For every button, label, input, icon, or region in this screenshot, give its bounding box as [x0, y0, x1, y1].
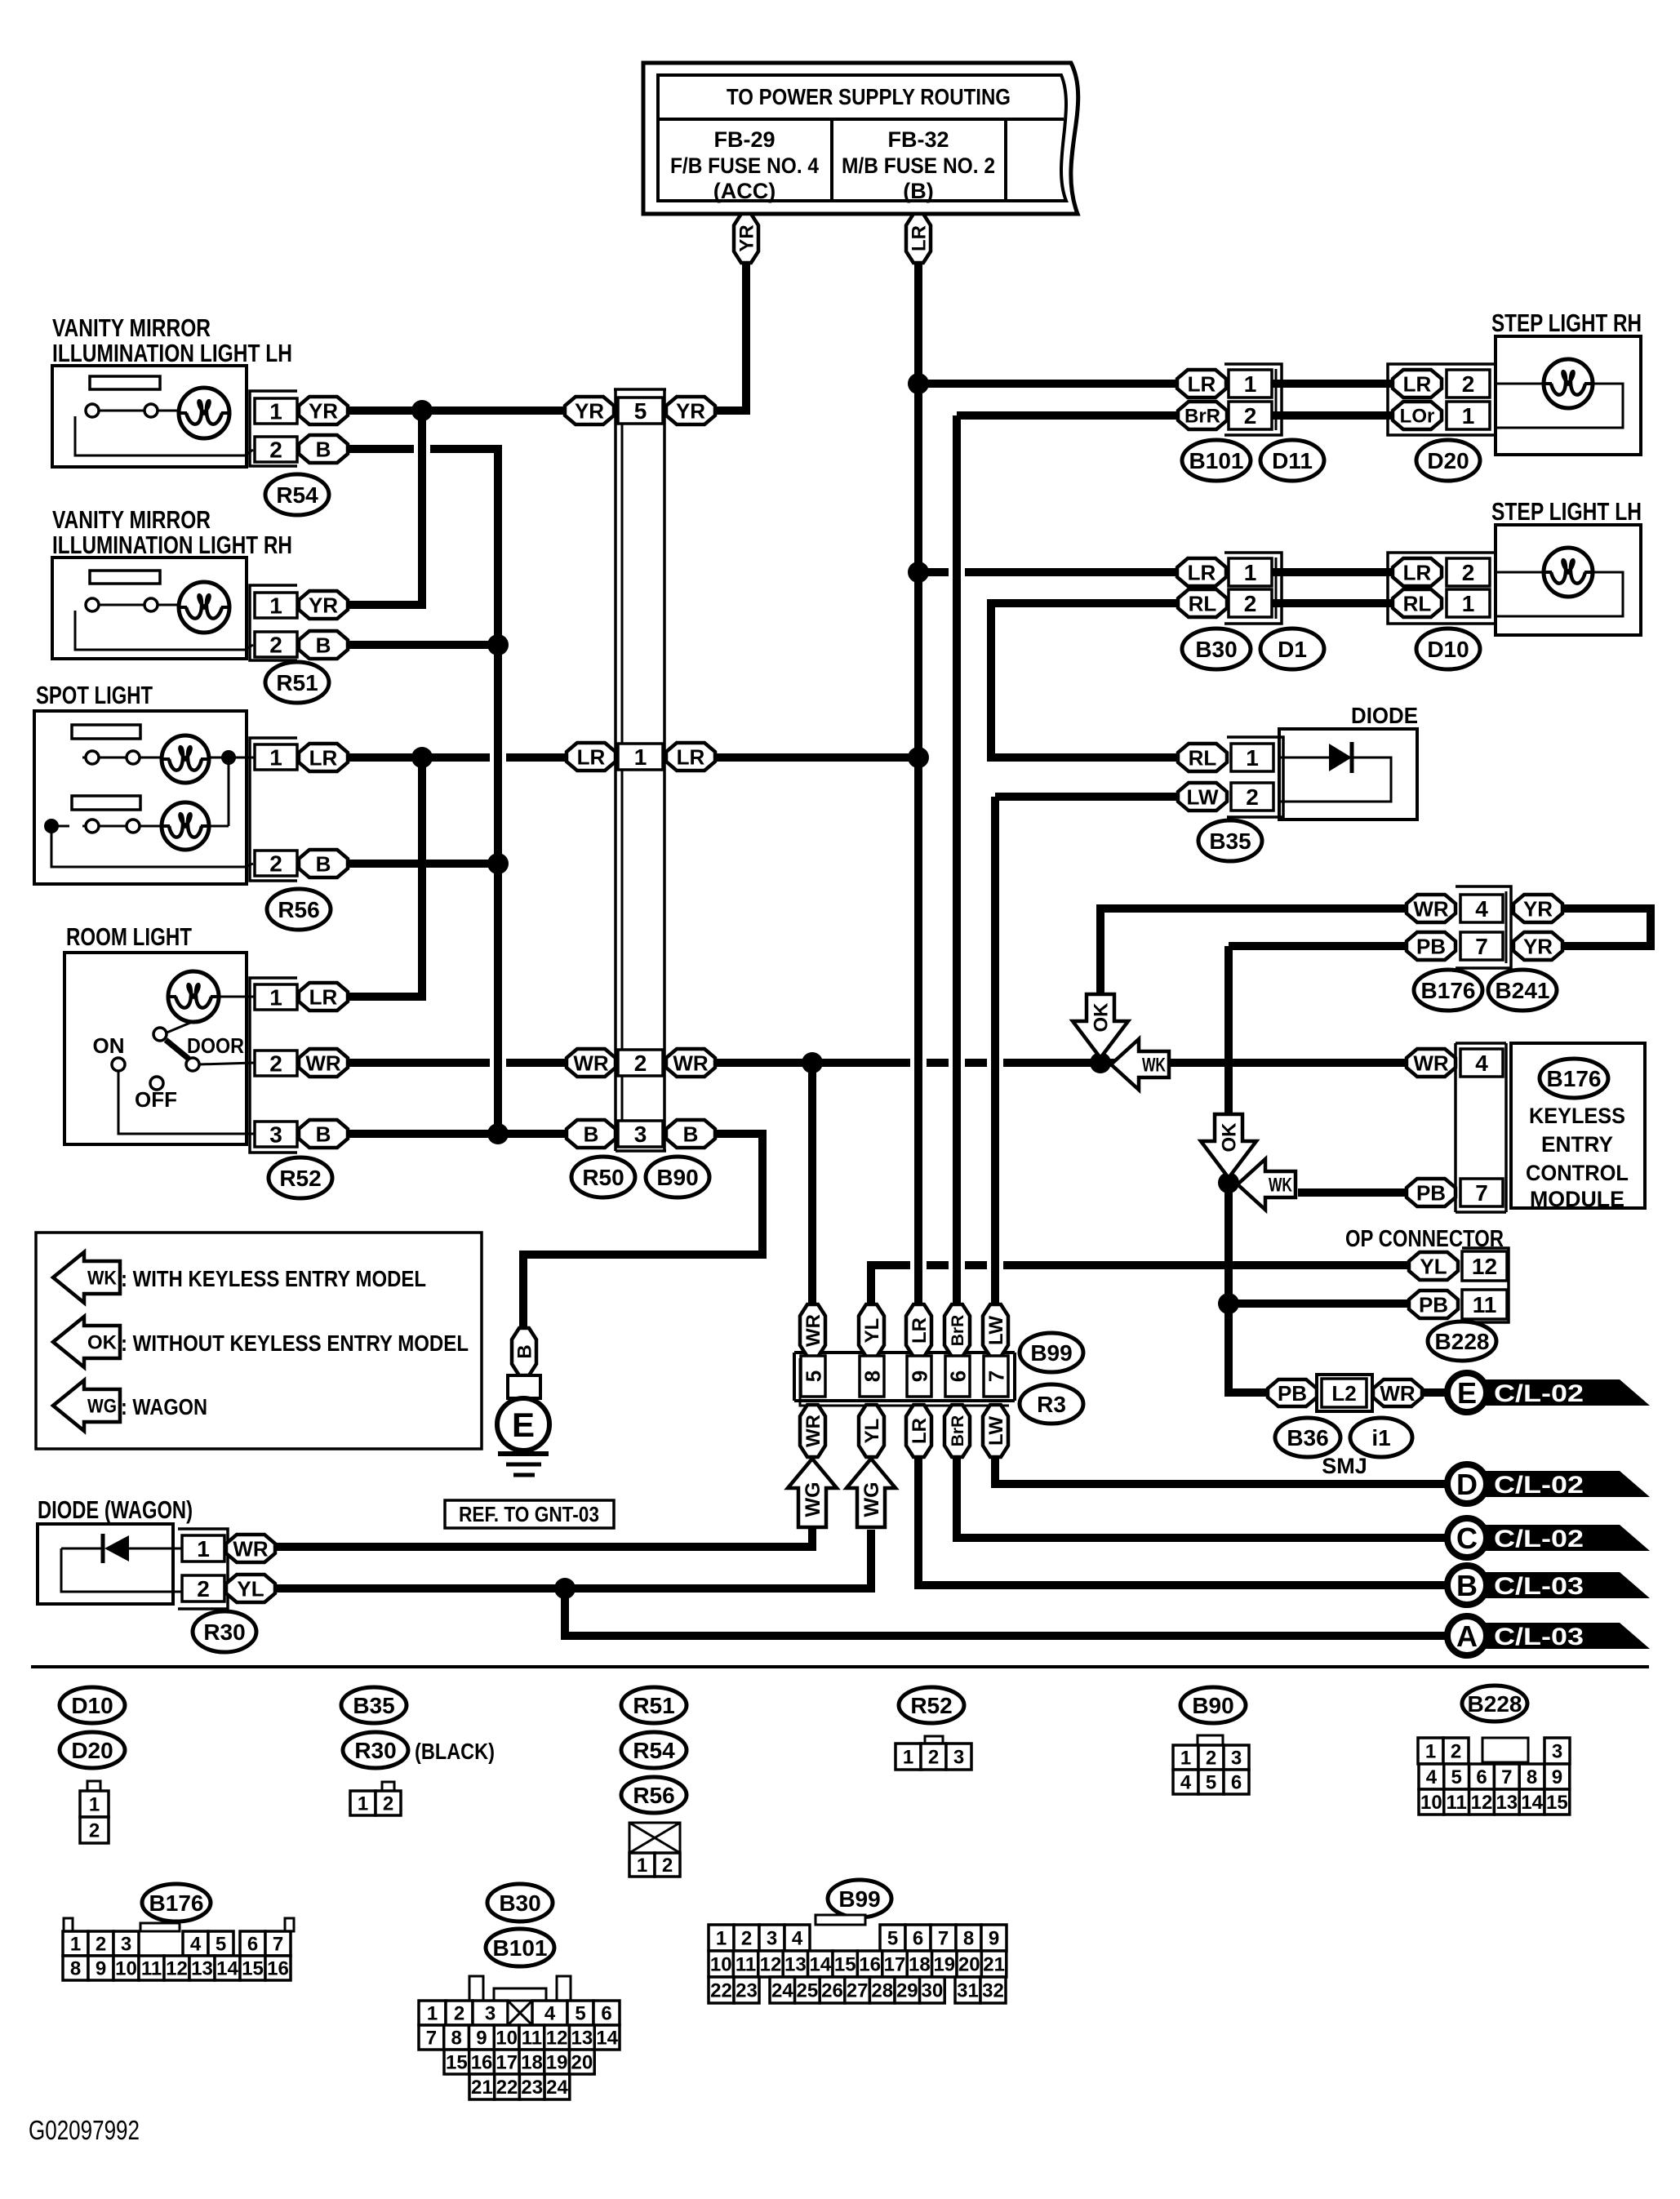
- svg-text:8: 8: [963, 1928, 974, 1950]
- lamp: vanity mirror RH bulb: [179, 582, 229, 633]
- connector B99/R3 outline: [794, 1351, 1015, 1354]
- connector designator B90 (view): [1180, 1687, 1246, 1723]
- svg-text:B176: B176: [1547, 1066, 1602, 1091]
- wire tag YL below B99 pin8: [859, 1405, 884, 1457]
- svg-text:B99: B99: [838, 1886, 880, 1912]
- wire tag BrR below B99 pin6: [944, 1405, 970, 1457]
- connector B176/B241 bracket: [1456, 886, 1511, 968]
- svg-text:C/L-02: C/L-02: [1494, 1380, 1584, 1407]
- node LR / step LH junction: [908, 562, 929, 583]
- OP connector pin 12: [1462, 1251, 1507, 1281]
- svg-text:32: 32: [982, 1980, 1004, 2002]
- option arrow OK (without keyless) on PB line: [1201, 1114, 1256, 1178]
- wire tag WR at B176/B241 pin4: [1407, 895, 1456, 922]
- svg-text:B30: B30: [499, 1890, 540, 1916]
- svg-text:WK: WK: [1269, 1175, 1292, 1197]
- step light RH internal wiring: [1496, 383, 1543, 385]
- svg-text:B36: B36: [1287, 1425, 1328, 1450]
- svg-text:23: 23: [521, 2077, 543, 2099]
- svg-text:D20: D20: [1427, 448, 1469, 473]
- svg-text:R51: R51: [276, 670, 318, 695]
- svg-text:5: 5: [887, 1928, 898, 1950]
- option arrow WK (with keyless) on WR line: [1111, 1039, 1169, 1090]
- wire D: B99 pin7 down to connector D C/L-02: [995, 1455, 1450, 1484]
- connector face view B30/B101 row1: [419, 2001, 446, 2025]
- svg-text:16: 16: [859, 1954, 881, 1976]
- connector designator D10: [1416, 629, 1480, 669]
- connector designator D20 (view): [60, 1732, 125, 1768]
- svg-text:B35: B35: [353, 1693, 394, 1718]
- inline connector D to C/L-02: [1469, 1471, 1650, 1497]
- svg-text:LR: LR: [309, 745, 338, 770]
- connector designator B36: [1275, 1418, 1340, 1457]
- option arrow WG (wagon) on WR line: [788, 1459, 837, 1527]
- svg-text:6: 6: [1476, 1766, 1487, 1788]
- wire LR: spot light pin1 row across R50 connector to LR trunk: [347, 753, 918, 762]
- svg-text:15: 15: [1546, 1792, 1568, 1814]
- svg-text:B176: B176: [1421, 978, 1476, 1003]
- svg-text:3: 3: [953, 1747, 964, 1769]
- connector D20 bracket: [1388, 364, 1496, 435]
- svg-text:R54: R54: [633, 1738, 675, 1763]
- svg-text:7: 7: [426, 2028, 437, 2050]
- wire YR feed: power supply FB-29 drop down to vanity/spot YR row: [347, 263, 746, 411]
- diode R30 box: [38, 1524, 173, 1604]
- connector face view B99 row1: [709, 1925, 734, 1951]
- svg-text:6: 6: [945, 1370, 970, 1382]
- svg-text:1: 1: [1180, 1748, 1191, 1770]
- svg-text:YR: YR: [1523, 934, 1553, 958]
- svg-text:9: 9: [989, 1928, 999, 1950]
- connector R50/B90 strip: [614, 389, 617, 1151]
- svg-text:FB-32: FB-32: [887, 127, 949, 152]
- connector designator R52 (view): [899, 1687, 964, 1723]
- svg-text:5: 5: [1206, 1772, 1216, 1794]
- svg-text:LR: LR: [909, 1418, 931, 1444]
- svg-text:1: 1: [903, 1747, 913, 1769]
- wire B: vanity LH pin2 row and B trunk down to room-light B row: [347, 449, 498, 1134]
- keyless module pin 4: [1460, 1049, 1503, 1077]
- svg-text:1: 1: [1425, 1741, 1436, 1763]
- option arrow OK (without keyless) on WR line: [1073, 994, 1128, 1058]
- connector designator i1: [1350, 1418, 1412, 1457]
- svg-text:2: 2: [383, 1793, 393, 1815]
- svg-text:YR: YR: [676, 398, 705, 423]
- wire tag YR below power box: [734, 214, 758, 263]
- vanity LH terminal circles: [86, 404, 99, 417]
- svg-text:YL: YL: [861, 1419, 883, 1444]
- svg-text:LR: LR: [1403, 371, 1432, 396]
- svg-text:4: 4: [544, 2003, 556, 2025]
- wire LW vertical down to B99 pin 7: [991, 797, 999, 1306]
- svg-text:PB: PB: [1278, 1381, 1307, 1406]
- connector designator B35: [1198, 820, 1262, 861]
- connector R50/B90 pin 3 (B row): [618, 1121, 663, 1147]
- wire tag WR at R30 pin1: [226, 1535, 275, 1562]
- svg-text:7: 7: [273, 1934, 283, 1956]
- wire tag YL at OP pin12: [1409, 1252, 1458, 1280]
- svg-text:L2: L2: [1331, 1381, 1356, 1406]
- svg-text:ILLUMINATION LIGHT LH: ILLUMINATION LIGHT LH: [52, 339, 292, 367]
- connector designator D1: [1260, 629, 1324, 669]
- svg-text:2: 2: [928, 1747, 939, 1769]
- connector designator R52: [269, 1157, 332, 1198]
- connector B176/B241 pin 4: [1460, 895, 1503, 922]
- svg-text:WR: WR: [802, 1314, 824, 1347]
- legend box: [36, 1233, 482, 1449]
- svg-text:B241: B241: [1496, 978, 1550, 1003]
- svg-text:BrR: BrR: [949, 1315, 967, 1347]
- svg-text:B90: B90: [656, 1165, 698, 1190]
- svg-text:LW: LW: [1187, 784, 1219, 809]
- svg-text:VANITY MIRROR: VANITY MIRROR: [52, 313, 211, 342]
- svg-text:2: 2: [1246, 784, 1259, 810]
- wire B: B99 pin9 down to connector B C/L-03: [918, 1455, 1450, 1585]
- connector designator B176 (module): [1540, 1059, 1608, 1098]
- wire WR: diode R30 pin1 row to WG arrow below B99 pin 5: [275, 1526, 812, 1547]
- connector designator B101: [1182, 440, 1251, 481]
- connector R52 pin 3: [255, 1122, 297, 1147]
- wire tag B at R56 pin 2: [299, 850, 348, 877]
- svg-text:28: 28: [871, 1980, 893, 2002]
- connector R52 pin 2: [255, 1051, 297, 1076]
- connector designator R50: [571, 1157, 635, 1197]
- connector designator D20: [1416, 440, 1480, 481]
- connector R54 pin 2: [255, 437, 297, 462]
- svg-text:4: 4: [1475, 896, 1488, 922]
- wire WR: room light pin2 row across to keyless entry module pin 4: [347, 1059, 1409, 1067]
- lamp: spot light bulb 1: [162, 735, 209, 783]
- svg-text:M/B FUSE NO. 2: M/B FUSE NO. 2: [842, 153, 995, 178]
- wire tag LR right of R50 pin1: [666, 743, 715, 771]
- svg-text:YR: YR: [575, 398, 604, 423]
- OP connector bracket: [1462, 1248, 1509, 1322]
- svg-text:5: 5: [1451, 1766, 1462, 1788]
- svg-text:14: 14: [216, 1958, 238, 1980]
- svg-text:1: 1: [358, 1793, 368, 1815]
- node LR spot/room junction: [411, 747, 433, 768]
- wire tag PB at SMJ: [1268, 1379, 1317, 1406]
- svg-text:27: 27: [847, 1980, 869, 2002]
- svg-text:R50: R50: [582, 1165, 624, 1190]
- spot light resistor 1: [72, 725, 140, 739]
- OP connector pin 11: [1462, 1290, 1507, 1319]
- svg-text:D: D: [1456, 1468, 1478, 1501]
- svg-text:13: 13: [191, 1958, 213, 1980]
- svg-text:YL: YL: [237, 1576, 264, 1601]
- svg-text:D10: D10: [1427, 637, 1469, 662]
- svg-text:11: 11: [1473, 1292, 1497, 1317]
- svg-text:2: 2: [96, 1934, 106, 1956]
- wire B branch: vanity mirror RH pin 2: [347, 641, 498, 649]
- svg-text:2: 2: [1462, 371, 1475, 397]
- connector face view B90: [1198, 1735, 1223, 1745]
- wire tag YL at R30 pin2: [226, 1575, 275, 1602]
- vanity RH terminal circles: [86, 598, 99, 611]
- spot light internal wiring: [82, 757, 127, 759]
- wire C: B99 pin6 down to connector C C/L-02: [957, 1455, 1450, 1538]
- svg-text:1: 1: [634, 744, 647, 770]
- legend arrow OK: [53, 1317, 120, 1367]
- svg-text:PB: PB: [1416, 1180, 1446, 1205]
- wire tag YR right of pin4: [1513, 895, 1562, 922]
- connector D20 pin 1: [1447, 402, 1490, 429]
- svg-text:10: 10: [710, 1954, 732, 1976]
- svg-text:SPOT LIGHT: SPOT LIGHT: [36, 681, 153, 709]
- svg-text:B: B: [1456, 1569, 1478, 1602]
- node PB keyless junction: [1218, 1172, 1239, 1193]
- svg-text:STEP LIGHT RH: STEP LIGHT RH: [1491, 309, 1642, 337]
- svg-text:4: 4: [190, 1934, 202, 1956]
- svg-text:: WAGON: : WAGON: [121, 1394, 207, 1419]
- svg-text:12: 12: [1471, 1792, 1493, 1814]
- svg-text:7: 7: [1501, 1766, 1512, 1788]
- wire YL: diode R30 pin2 row to WG arrow below B99 pin 8: [275, 1530, 871, 1588]
- svg-text:4: 4: [1180, 1772, 1192, 1794]
- connector designator B35 (view): [341, 1687, 407, 1723]
- svg-text:15: 15: [834, 1954, 856, 1976]
- connector designator D11: [1260, 440, 1324, 481]
- svg-text:1: 1: [1244, 560, 1257, 585]
- svg-text:2: 2: [741, 1928, 752, 1950]
- svg-text:YR: YR: [309, 593, 338, 617]
- connector designator B228 (view): [1462, 1686, 1527, 1721]
- svg-text:R51: R51: [633, 1693, 674, 1718]
- svg-text:14: 14: [596, 2028, 618, 2050]
- wire tag LR at B30 pin1: [1177, 558, 1226, 586]
- wire B: room light pin3 row through R50 pin3 then to ground lead: [347, 1134, 762, 1328]
- svg-text:8: 8: [860, 1370, 884, 1382]
- connector R30 pin 1: [182, 1535, 224, 1562]
- spot light terminal circles: [86, 751, 99, 764]
- svg-text:7: 7: [938, 1928, 949, 1950]
- connector B35 bracket: [1227, 737, 1283, 817]
- svg-text:10: 10: [1420, 1792, 1442, 1814]
- svg-text:3: 3: [1552, 1741, 1562, 1763]
- connector D10 pin 1: [1447, 589, 1490, 617]
- svg-text:11: 11: [141, 1958, 162, 1980]
- connector face view R52: [925, 1736, 943, 1745]
- reference box REF. TO GNT-03: [445, 1500, 614, 1528]
- svg-text:SMJ: SMJ: [1322, 1454, 1367, 1478]
- connector designator B90: [646, 1157, 709, 1197]
- svg-text:STEP LIGHT LH: STEP LIGHT LH: [1491, 497, 1642, 526]
- svg-text:2: 2: [197, 1576, 210, 1601]
- wire tag LR at R56 pin 1: [299, 744, 348, 771]
- connector R52 pin 1: [255, 984, 297, 1010]
- room light internal wiring: [220, 996, 255, 998]
- connector R30 bracket: [178, 1529, 228, 1609]
- svg-text:ENTRY: ENTRY: [1541, 1132, 1613, 1157]
- svg-text:WR: WR: [1413, 1051, 1449, 1075]
- svg-text:FB-29: FB-29: [713, 127, 775, 152]
- connector B30 pin 1: [1229, 558, 1272, 586]
- wire tag BrR above B99 pin6: [944, 1304, 970, 1357]
- svg-text:22: 22: [710, 1980, 732, 2002]
- svg-text:MODULE: MODULE: [1530, 1187, 1624, 1211]
- svg-text:8: 8: [451, 2028, 461, 2050]
- wire PB: B176/B241 pin7 leftward: [1229, 942, 1409, 950]
- power supply routing box: [643, 63, 1078, 214]
- svg-text:(ACC): (ACC): [713, 179, 776, 203]
- svg-text:LOr: LOr: [1400, 406, 1435, 428]
- connector designator D10 (view): [60, 1687, 125, 1723]
- SMJ grid L2: [1317, 1375, 1372, 1411]
- svg-text:RL: RL: [1189, 745, 1217, 770]
- svg-text:YR: YR: [736, 224, 758, 251]
- svg-text:2: 2: [662, 1855, 673, 1877]
- wire E: SMJ WR to connector E C/L-02: [1420, 1388, 1450, 1397]
- option arrow WK (with keyless) on PB line: [1238, 1159, 1296, 1210]
- node B room junction: [487, 1123, 509, 1144]
- svg-text:1: 1: [269, 985, 282, 1011]
- svg-text:9: 9: [1552, 1766, 1562, 1788]
- connector D20 pin 2: [1447, 370, 1490, 398]
- option arrow WG (wagon) on YL line: [847, 1459, 896, 1527]
- svg-text:3: 3: [485, 2003, 496, 2025]
- wire BrR vertical down to B99 pin 6: [953, 415, 961, 1306]
- svg-text:8: 8: [70, 1958, 81, 1980]
- svg-text:18: 18: [521, 2052, 543, 2074]
- svg-text:C/L-02: C/L-02: [1494, 1472, 1584, 1499]
- connector face view D10/D20: [87, 1781, 100, 1791]
- svg-text:YL: YL: [1420, 1254, 1447, 1278]
- svg-text:DOOR: DOOR: [187, 1033, 244, 1058]
- node LR / step RH junction: [908, 373, 929, 394]
- connector D10 bracket: [1388, 553, 1496, 624]
- svg-text:F/B FUSE NO. 4: F/B FUSE NO. 4: [670, 153, 819, 178]
- svg-text:YL: YL: [861, 1318, 883, 1344]
- svg-text:WK: WK: [87, 1268, 118, 1290]
- svg-text:B: B: [514, 1344, 536, 1358]
- svg-text:B176: B176: [149, 1890, 204, 1916]
- node WR keyless junction: [1090, 1052, 1111, 1073]
- svg-text:BrR: BrR: [949, 1415, 967, 1447]
- wire WK tail to keyless PB pin 7: [1298, 1188, 1409, 1197]
- connector designator R54 (view): [621, 1732, 687, 1768]
- svg-text:OK: OK: [1091, 1002, 1113, 1033]
- svg-text:R30: R30: [354, 1738, 396, 1763]
- svg-text:17: 17: [496, 2052, 518, 2074]
- svg-text:DIODE (WAGON): DIODE (WAGON): [38, 1495, 193, 1524]
- svg-text:: WITHOUT KEYLESS ENTRY MODEL: : WITHOUT KEYLESS ENTRY MODEL: [121, 1331, 469, 1356]
- svg-text:5: 5: [634, 398, 647, 424]
- svg-text:DIODE: DIODE: [1351, 703, 1418, 728]
- connector R30 pin 2: [182, 1575, 224, 1601]
- wire A: YL junction down to connector A C/L-03: [565, 1588, 1450, 1636]
- ground connector block: [508, 1375, 540, 1398]
- connector R54 pin 1: [255, 398, 297, 424]
- svg-text:TO POWER SUPPLY ROUTING: TO POWER SUPPLY ROUTING: [727, 84, 1011, 109]
- svg-text:1: 1: [70, 1934, 81, 1956]
- connector R56 pin 2: [255, 851, 297, 876]
- connector R56 pin 1: [255, 744, 297, 770]
- inline connector B to C/L-03: [1469, 1572, 1650, 1598]
- svg-text:2: 2: [634, 1051, 647, 1076]
- svg-text:9: 9: [907, 1370, 931, 1382]
- svg-text:21: 21: [983, 1954, 1005, 1976]
- svg-text:(BLACK): (BLACK): [415, 1739, 495, 1764]
- vanity mirror illumination light LH box: [52, 366, 247, 467]
- wire tag RL at B30 pin2: [1178, 589, 1227, 617]
- svg-text:WG: WG: [802, 1482, 824, 1517]
- svg-text:B90: B90: [1192, 1693, 1233, 1718]
- connector designator B99 (view): [828, 1880, 891, 1917]
- svg-text:19: 19: [546, 2052, 568, 2074]
- node YL junction: [554, 1578, 576, 1599]
- svg-text:WR: WR: [233, 1536, 269, 1561]
- connector R51 pin 2: [255, 632, 297, 657]
- svg-text:20: 20: [571, 2052, 593, 2074]
- lamp: step light LH bulb: [1544, 548, 1593, 597]
- svg-text:B228: B228: [1435, 1329, 1490, 1354]
- svg-text:D1: D1: [1278, 637, 1307, 662]
- svg-text:LR: LR: [1403, 560, 1432, 584]
- connector B101 pin 2: [1229, 402, 1272, 429]
- wire WR: B176/B241 pin4 left and down to WR junction (without keyless): [1100, 908, 1409, 1061]
- connector face view B99 row3: [709, 1977, 734, 2003]
- connector R54 bracket: [250, 391, 297, 466]
- svg-text:12: 12: [166, 1958, 188, 1980]
- svg-text:LR: LR: [309, 984, 338, 1009]
- connector B35 pin 2: [1231, 783, 1273, 811]
- wire tag PB at OP pin11: [1409, 1291, 1458, 1318]
- connector face view B99 row2: [709, 1951, 733, 1977]
- svg-text:1: 1: [1246, 745, 1259, 771]
- svg-text:15: 15: [446, 2052, 468, 2074]
- vanity mirror illumination light RH box: [52, 558, 247, 659]
- wire tag LR below power box: [906, 214, 931, 263]
- connector designator B101 (view): [486, 1929, 554, 1966]
- connector face view R51/R54/R56 pins: [629, 1853, 655, 1877]
- svg-text:WK: WK: [1142, 1055, 1166, 1077]
- wire WR: junction down to B99 pin 5: [808, 1063, 816, 1306]
- svg-text:16: 16: [267, 1958, 289, 1980]
- svg-text:2: 2: [1206, 1748, 1216, 1770]
- svg-text:1: 1: [269, 593, 282, 619]
- room light box: [64, 953, 247, 1144]
- svg-text:1: 1: [197, 1536, 210, 1562]
- svg-text:OK: OK: [1219, 1122, 1241, 1153]
- wire PB: junction to OP connector pin 11: [1229, 1299, 1413, 1308]
- diode R30 internal wiring: [61, 1548, 101, 1550]
- svg-text:26: 26: [821, 1980, 843, 2002]
- svg-text:1: 1: [1462, 403, 1475, 429]
- node YR vanity junction: [411, 400, 433, 421]
- svg-text:17: 17: [884, 1954, 906, 1976]
- svg-text:C/L-02: C/L-02: [1494, 1526, 1584, 1553]
- wire tag LR at D20 pin2: [1393, 370, 1442, 398]
- svg-text:6: 6: [247, 1934, 258, 1956]
- svg-text:YR: YR: [309, 398, 338, 423]
- svg-text:5: 5: [216, 1934, 226, 1956]
- svg-text:6: 6: [601, 2003, 611, 2025]
- svg-text:R56: R56: [633, 1783, 674, 1808]
- wire tag YR right of R50 pin5: [666, 397, 715, 424]
- svg-text:1: 1: [269, 399, 282, 424]
- step light LH box: [1496, 525, 1641, 635]
- svg-text:B: B: [584, 1122, 599, 1146]
- wire tag B at ground lead: [512, 1328, 536, 1375]
- inline connector C to C/L-02: [1469, 1525, 1650, 1551]
- svg-text:D10: D10: [71, 1693, 113, 1718]
- connector designator R54: [265, 474, 329, 515]
- svg-text:7: 7: [1475, 1180, 1488, 1206]
- svg-text:ON: ON: [93, 1033, 125, 1058]
- svg-text:(B): (B): [903, 179, 933, 203]
- svg-text:: WITH KEYLESS ENTRY MODEL: : WITH KEYLESS ENTRY MODEL: [121, 1266, 426, 1291]
- svg-text:B: B: [683, 1122, 699, 1146]
